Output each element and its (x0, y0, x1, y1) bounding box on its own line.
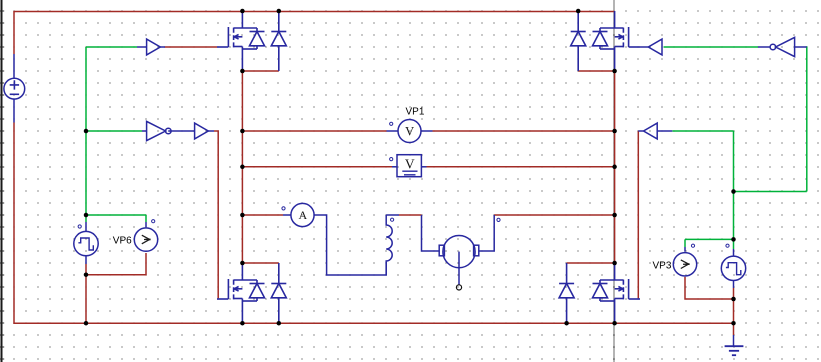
svg-text:A: A (298, 208, 307, 222)
svg-text:VP6: VP6 (113, 236, 132, 247)
svg-text:V: V (405, 125, 414, 139)
svg-text:VP1: VP1 (406, 107, 425, 118)
svg-text:V: V (405, 157, 415, 172)
svg-text:VP3: VP3 (653, 260, 672, 271)
